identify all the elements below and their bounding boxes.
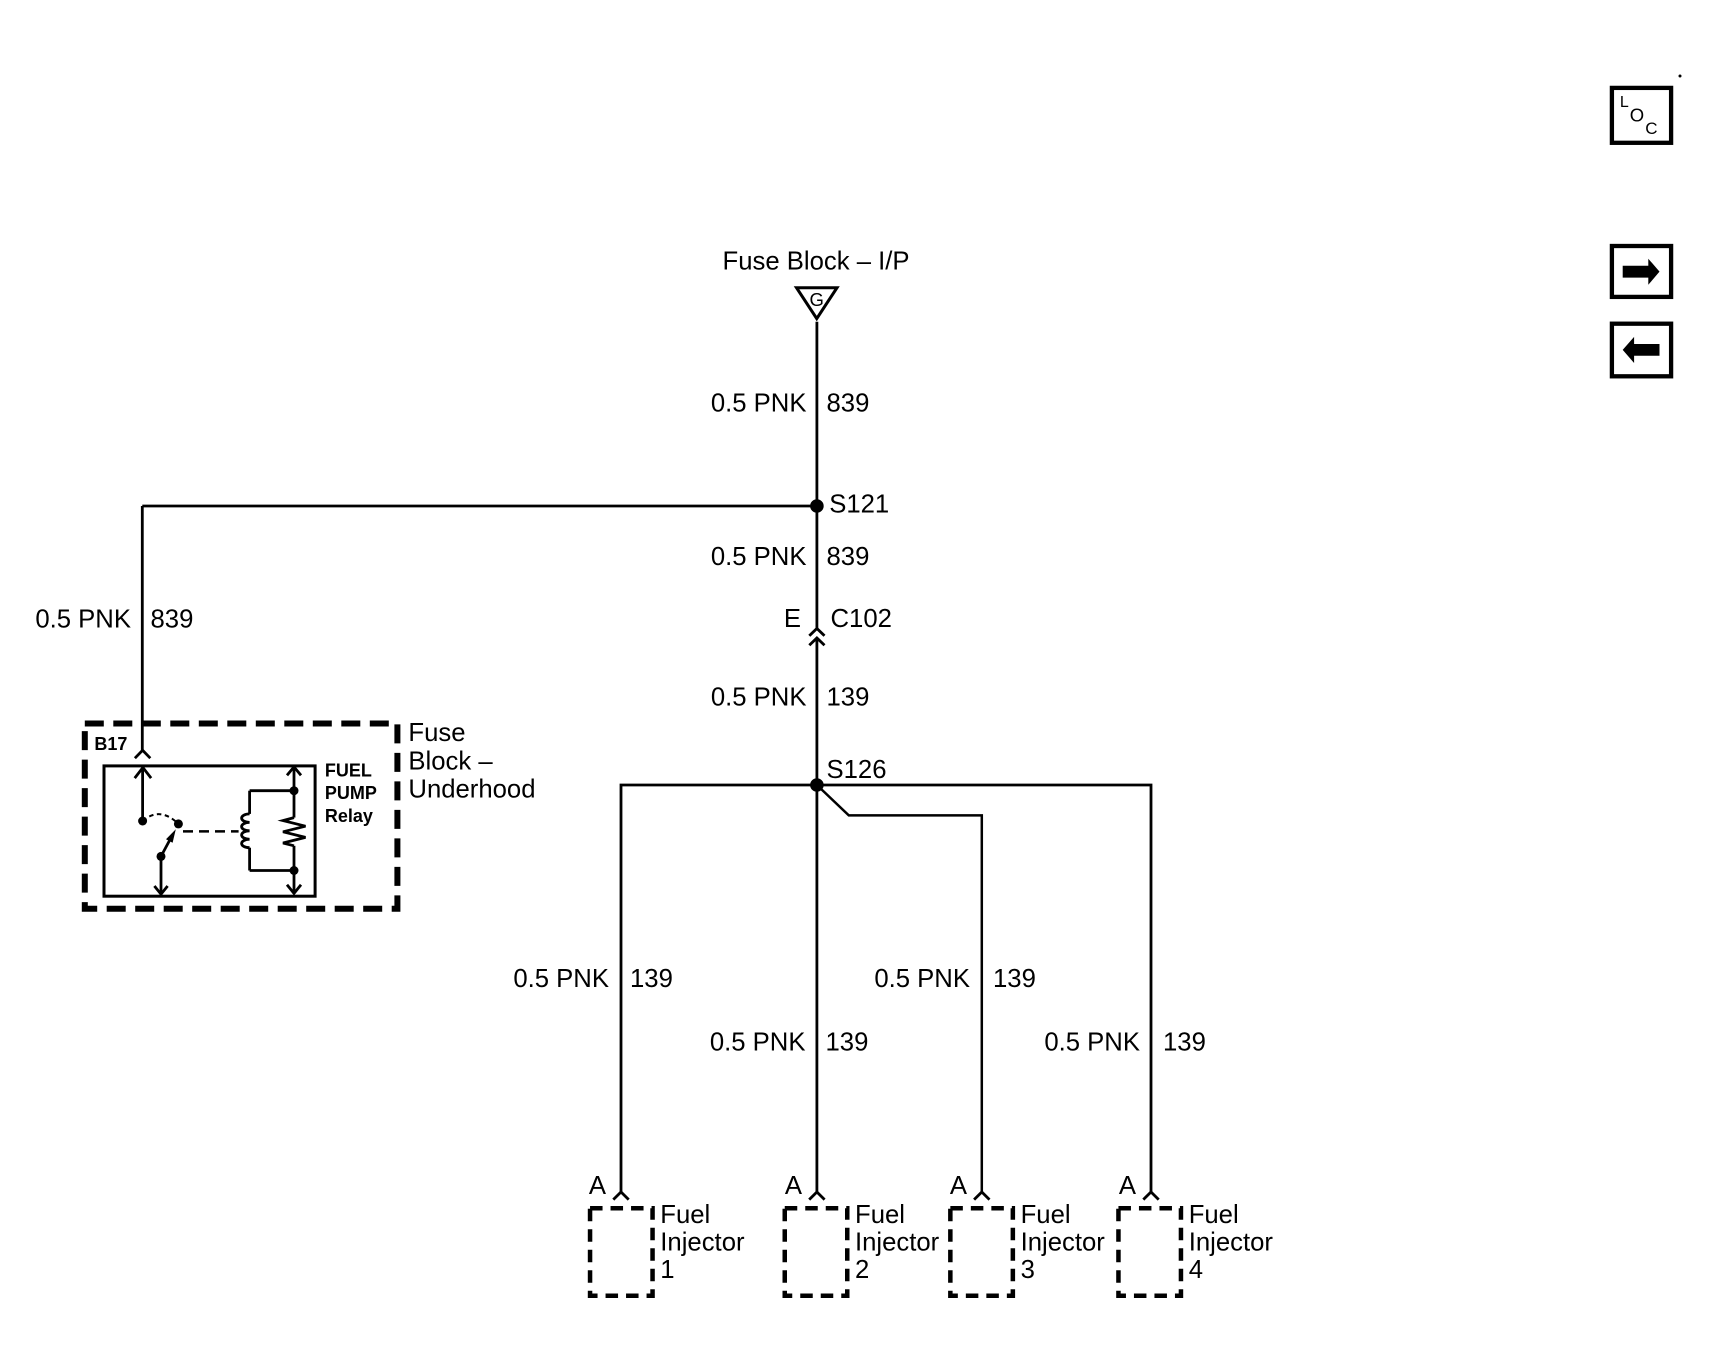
fuel injector 3 dashed box <box>950 1208 1013 1296</box>
wire label 0.5 PNK 839 upper <box>711 389 870 417</box>
forward arrow icon <box>1612 246 1671 297</box>
svg-text:0.5 PNK: 0.5 PNK <box>711 389 807 417</box>
connector chevron injector 3 <box>974 1192 989 1200</box>
wire: S121 horizontal to left branch <box>142 505 817 508</box>
svg-text:0.5 PNK: 0.5 PNK <box>710 1028 806 1056</box>
relay coil <box>242 791 294 871</box>
speck artifact <box>1679 75 1682 78</box>
svg-text:0.5 PNK: 0.5 PNK <box>35 605 131 633</box>
svg-text:S121: S121 <box>829 491 889 519</box>
connector chevron injector 2 <box>809 1192 824 1200</box>
wire label 0.5 PNK 139 injector4 <box>1044 1028 1206 1056</box>
svg-text:E: E <box>784 605 801 633</box>
svg-text:O: O <box>1630 105 1644 126</box>
wire label 0.5 PNK 139 injector3 <box>874 965 1036 993</box>
svg-text:A: A <box>950 1172 968 1200</box>
fuel injector 1 dashed box <box>590 1208 653 1296</box>
svg-text:139: 139 <box>826 1028 869 1056</box>
wire: S126 to injector 2 <box>816 785 819 1192</box>
relay lower pin arrow <box>154 856 167 894</box>
svg-text:Fuse Block – I/P: Fuse Block – I/P <box>723 248 910 276</box>
svg-text:C: C <box>1645 119 1657 138</box>
fuel injector 2 dashed box <box>785 1208 848 1296</box>
fuel injector 4 dashed box <box>1118 1208 1181 1296</box>
relay switch fixed contact dot <box>138 817 147 826</box>
svg-text:A: A <box>1119 1172 1137 1200</box>
relay coil bottom node dot <box>290 866 299 875</box>
fuse block underhood dashed box <box>85 724 398 909</box>
relay switch blade with arrowhead <box>161 829 176 856</box>
svg-text:839: 839 <box>827 389 870 417</box>
svg-text:FuelInjector3: FuelInjector3 <box>1021 1201 1106 1284</box>
wire label 0.5 PNK 839 middle <box>711 543 870 571</box>
connector chevron injector 1 <box>613 1192 628 1200</box>
loc icon box <box>1612 88 1671 143</box>
relay switch dashed arc <box>143 814 179 824</box>
wire label 0.5 PNK 139 injector2 <box>710 1028 869 1056</box>
terminal G triangle <box>797 288 838 319</box>
junction S121 <box>810 499 824 513</box>
svg-text:C102: C102 <box>831 605 892 633</box>
svg-text:S126: S126 <box>827 756 887 784</box>
svg-text:139: 139 <box>827 684 870 712</box>
relay coil dashed actuation line <box>183 830 239 833</box>
svg-text:FUELPUMPRelay: FUELPUMPRelay <box>325 761 377 826</box>
junction S126 <box>810 778 824 792</box>
svg-text:A: A <box>589 1172 607 1200</box>
connector C102 symbol <box>809 629 824 646</box>
relay resistor <box>283 791 306 871</box>
svg-text:FuelInjector2: FuelInjector2 <box>855 1201 940 1284</box>
svg-text:139: 139 <box>1163 1028 1206 1056</box>
svg-text:0.5 PNK: 0.5 PNK <box>874 965 970 993</box>
svg-text:839: 839 <box>151 605 194 633</box>
wire: S126 to injector 3 <box>817 785 982 1192</box>
svg-text:139: 139 <box>993 965 1036 993</box>
connector chevron injector 4 <box>1143 1192 1158 1200</box>
wire: left branch down to B17 <box>141 506 144 750</box>
wire: S121 down to C102 <box>816 506 819 629</box>
svg-text:FuelInjector1: FuelInjector1 <box>660 1201 745 1284</box>
svg-text:0.5 PNK: 0.5 PNK <box>513 965 609 993</box>
svg-text:0.5 PNK: 0.5 PNK <box>711 543 807 571</box>
svg-text:839: 839 <box>827 543 870 571</box>
svg-text:139: 139 <box>630 965 673 993</box>
wire label 0.5 PNK 139 <box>711 684 870 712</box>
wire: S126 to injector 4 <box>817 785 1151 1192</box>
svg-text:0.5 PNK: 0.5 PNK <box>1044 1028 1140 1056</box>
relay right pin top arrow <box>287 767 301 791</box>
svg-text:L: L <box>1620 94 1629 111</box>
relay switch lower contact dot <box>157 852 166 861</box>
relay right pin bottom arrow <box>287 871 301 894</box>
svg-text:A: A <box>785 1172 803 1200</box>
relay coil top node dot <box>290 786 299 795</box>
svg-text:G: G <box>810 289 824 310</box>
label E C102 <box>784 605 892 633</box>
svg-text:B17: B17 <box>94 734 127 754</box>
svg-text:0.5 PNK: 0.5 PNK <box>711 684 807 712</box>
wire: C102 to S126 <box>816 639 819 786</box>
relay left pin arrow <box>135 768 151 822</box>
fuel pump relay box <box>104 766 315 896</box>
wire label 0.5 PNK 839 left <box>35 605 193 633</box>
wire label 0.5 PNK 139 injector1 <box>513 965 673 993</box>
back arrow icon <box>1612 324 1671 377</box>
relay switch pivot dot <box>174 819 183 828</box>
svg-text:FuseBlock –Underhood: FuseBlock –Underhood <box>408 719 535 803</box>
wire: S126 to injector 1 <box>621 785 817 1192</box>
svg-text:FuelInjector4: FuelInjector4 <box>1189 1201 1274 1284</box>
connector B17 chevron <box>135 750 150 758</box>
wire: G to S121 <box>816 322 819 506</box>
